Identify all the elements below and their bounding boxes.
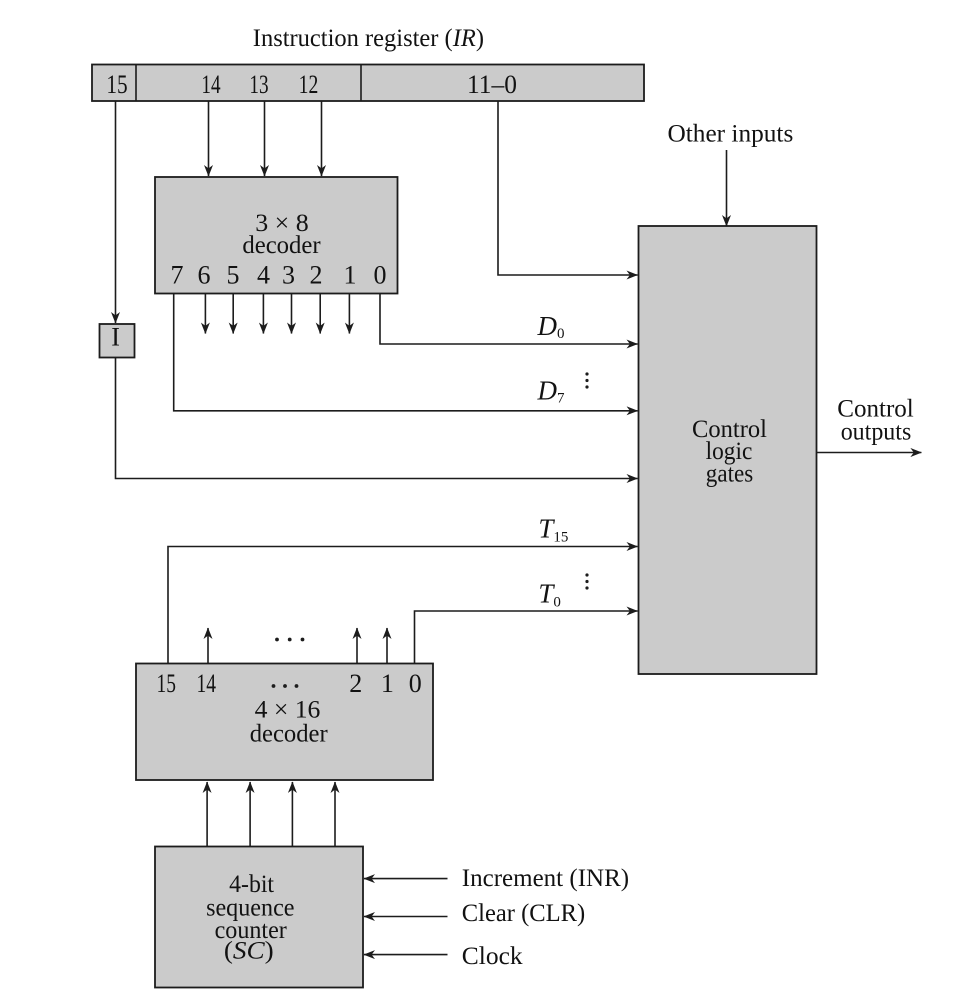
wire SC bit 2 to 4x16 decoder <box>249 782 251 847</box>
svg-text:2: 2 <box>349 669 362 698</box>
wire decoder output 5 <box>232 294 234 334</box>
svg-text:1: 1 <box>344 261 357 290</box>
I flip-flop <box>100 323 135 358</box>
svg-text:Clear (CLR): Clear (CLR) <box>462 898 585 927</box>
wire bit 15 to I flip-flop <box>115 101 117 323</box>
wire decoder output 3 <box>291 294 293 334</box>
4x16 decoder U2 <box>136 664 433 781</box>
wire decoder output 7 (D7) to control logic gates <box>174 294 638 411</box>
label Clear (CLR) <box>462 898 585 927</box>
svg-text:I: I <box>111 323 120 352</box>
label T15 <box>538 514 568 546</box>
wire Clock input <box>364 954 448 956</box>
svg-text:1: 1 <box>381 669 394 698</box>
wire decoder output 1 <box>348 294 350 334</box>
label D7 <box>537 376 566 407</box>
svg-text:3: 3 <box>282 261 295 290</box>
wire bit 12 to 3x8 decoder <box>321 101 323 176</box>
svg-text:15: 15 <box>106 70 127 99</box>
svg-text:2: 2 <box>310 261 323 290</box>
wire 4x16 decoder output 14 up arrow <box>207 628 209 664</box>
wire SC bit 0 to 4x16 decoder <box>334 782 336 847</box>
wire SC bit 3 to 4x16 decoder <box>206 782 208 847</box>
svg-text:T0: T0 <box>538 579 561 611</box>
svg-text:5: 5 <box>227 261 240 290</box>
svg-text:Instruction register (IR): Instruction register (IR) <box>253 23 484 52</box>
wire control outputs <box>817 452 922 454</box>
svg-text:decoder: decoder <box>242 230 321 259</box>
svg-text:T15: T15 <box>538 514 568 546</box>
wire bits 11-0 to control logic gates <box>498 101 638 275</box>
svg-text:Increment (INR): Increment (INR) <box>462 863 629 892</box>
label T0 <box>538 579 561 611</box>
dots between T15 and T0 <box>585 573 588 589</box>
wire I to control logic gates <box>116 358 638 479</box>
svg-text:Other inputs: Other inputs <box>668 119 794 148</box>
svg-text:D0: D0 <box>537 311 565 342</box>
svg-text:gates: gates <box>706 459 753 488</box>
label Control outputs <box>837 394 914 446</box>
wire decoder output 6 <box>204 294 206 334</box>
svg-text:14: 14 <box>201 70 220 99</box>
4-bit sequence counter SC <box>155 847 363 988</box>
3x8 decoder U1 <box>155 177 398 294</box>
wire other inputs into control logic gates <box>726 150 728 226</box>
wire Increment input <box>364 878 448 880</box>
wire 4x16 decoder output 1 up arrow <box>386 628 388 664</box>
svg-text:Clock: Clock <box>462 941 523 970</box>
label D0 <box>537 311 565 342</box>
svg-text:7: 7 <box>171 261 184 290</box>
svg-text:0: 0 <box>374 261 387 290</box>
dots between D0 and D7 <box>585 372 588 388</box>
svg-text:(SC): (SC) <box>224 936 274 965</box>
svg-text:D7: D7 <box>537 376 566 407</box>
svg-text:12: 12 <box>299 70 319 99</box>
register IR box <box>92 65 644 102</box>
svg-text:14: 14 <box>197 669 217 698</box>
svg-text:13: 13 <box>249 70 268 99</box>
wire decoder output 2 <box>319 294 321 334</box>
wire T0 from 4x16 decoder output 0 to control logic gates <box>415 611 638 664</box>
svg-text:4: 4 <box>257 261 270 290</box>
label Increment (INR) <box>462 863 629 892</box>
dots above 4x16 decoder <box>275 638 304 642</box>
control logic gates box <box>639 226 817 674</box>
svg-text:decoder: decoder <box>250 719 328 748</box>
wire Clear input <box>364 916 448 918</box>
label Other inputs <box>668 119 794 148</box>
wire decoder output 4 <box>262 294 264 334</box>
svg-text:11–0: 11–0 <box>467 70 517 99</box>
wire T15 from 4x16 decoder output 15 to control logic gates <box>168 547 638 664</box>
wire decoder output 0 (D0) to control logic gates <box>380 294 638 345</box>
svg-text:15: 15 <box>156 669 176 698</box>
wire SC bit 1 to 4x16 decoder <box>291 782 293 847</box>
wire bit 14 to 3x8 decoder <box>208 101 210 176</box>
wire bit 13 to 3x8 decoder <box>264 101 266 176</box>
wire 4x16 decoder output 2 up arrow <box>356 628 358 664</box>
svg-text:6: 6 <box>198 261 211 290</box>
svg-text:outputs: outputs <box>841 417 912 446</box>
label Clock <box>462 941 523 970</box>
svg-text:0: 0 <box>409 669 422 698</box>
